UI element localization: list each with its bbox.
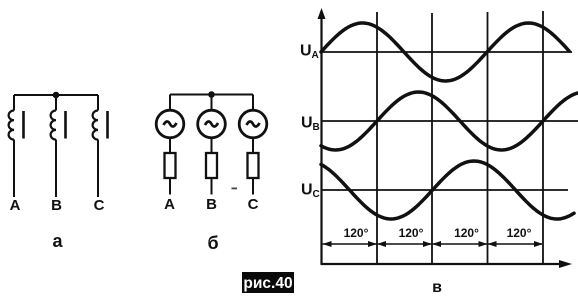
inductor winding B bbox=[51, 111, 56, 140]
svg-text:B: B bbox=[313, 122, 320, 133]
wire branch B upper bbox=[55, 95, 57, 111]
svg-text:120°: 120° bbox=[399, 226, 424, 240]
svg-text:рис.40: рис.40 bbox=[243, 275, 292, 292]
node junction dot b bbox=[208, 91, 215, 98]
svg-text:120°: 120° bbox=[507, 226, 532, 240]
resistor RA bbox=[165, 153, 176, 178]
waveform UB bbox=[321, 92, 578, 150]
wire top bus a bbox=[14, 94, 98, 96]
svg-text:C: C bbox=[313, 189, 320, 200]
gridline 4 bbox=[542, 11, 544, 264]
svg-text:A: A bbox=[10, 197, 21, 214]
gridline 3 bbox=[487, 12, 489, 264]
vertical axis bbox=[320, 18, 322, 264]
gridline 2 bbox=[431, 13, 433, 264]
wire branch A upper bbox=[13, 95, 15, 111]
core bar A bbox=[22, 111, 25, 139]
core bar C bbox=[106, 111, 109, 139]
baseline UB bbox=[322, 120, 578, 122]
inductor winding C bbox=[93, 111, 98, 140]
node junction dot a bbox=[53, 92, 60, 99]
wire branch C lower bbox=[97, 140, 99, 198]
waveform UC bbox=[321, 161, 574, 219]
waveform UA bbox=[321, 23, 569, 81]
svg-text:в: в bbox=[432, 279, 442, 296]
wire source C upper bbox=[252, 95, 254, 111]
baseline UC bbox=[322, 189, 569, 191]
wire source C to resistor bbox=[252, 138, 254, 153]
wire source A to resistor bbox=[169, 138, 171, 153]
wire source B upper bbox=[211, 95, 213, 111]
baseline UA bbox=[322, 51, 573, 53]
svg-text:C: C bbox=[94, 197, 105, 214]
svg-text:B: B bbox=[51, 197, 62, 214]
svg-text:а: а bbox=[52, 231, 63, 251]
resistor RB bbox=[206, 153, 217, 178]
inductor winding A bbox=[9, 111, 14, 140]
dimension arrows 120deg bbox=[323, 243, 543, 245]
wire source A upper bbox=[169, 95, 171, 111]
AC source GA bbox=[156, 110, 184, 138]
core bar B bbox=[64, 111, 67, 139]
wire resistor C lower bbox=[252, 178, 254, 195]
wire source B to resistor bbox=[211, 138, 213, 153]
svg-text:б: б bbox=[207, 233, 218, 253]
svg-text:U: U bbox=[301, 182, 313, 199]
wire branch B lower bbox=[55, 140, 57, 198]
svg-text:А: А bbox=[164, 196, 175, 213]
svg-text:С: С bbox=[248, 196, 259, 213]
svg-text:В: В bbox=[206, 196, 217, 213]
svg-text:A: A bbox=[312, 50, 319, 61]
gridline 1 bbox=[376, 12, 378, 264]
wire branch C upper bbox=[97, 95, 99, 111]
AC source GC bbox=[239, 110, 267, 138]
svg-text:120°: 120° bbox=[344, 226, 369, 240]
wire branch A lower bbox=[13, 140, 15, 198]
svg-text:U: U bbox=[301, 115, 313, 132]
speck artifact bbox=[232, 188, 238, 190]
resistor RC bbox=[248, 153, 259, 178]
wire resistor A lower bbox=[169, 178, 171, 195]
wire resistor B lower bbox=[211, 178, 213, 195]
wire top bus b bbox=[170, 94, 253, 96]
horizontal axis bbox=[321, 263, 561, 265]
svg-text:U: U bbox=[300, 43, 312, 60]
AC source GB bbox=[198, 110, 226, 138]
svg-text:120°: 120° bbox=[454, 226, 479, 240]
